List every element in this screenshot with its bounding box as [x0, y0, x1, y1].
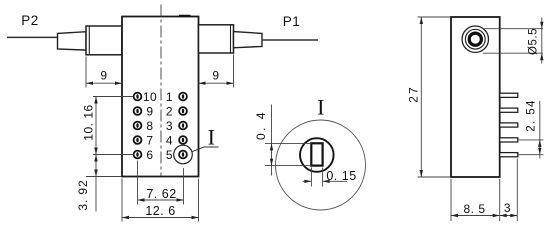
svg-text:2: 2 — [166, 104, 173, 118]
side view body — [451, 17, 500, 177]
svg-text:2. 54: 2. 54 — [526, 99, 538, 132]
side pin 4 — [500, 138, 518, 142]
svg-text:4: 4 — [166, 133, 173, 147]
detail view I big circle — [276, 120, 366, 210]
pin 3 — [166, 119, 187, 133]
dimension 0.4 — [254, 105, 311, 176]
svg-text:Ø5.5: Ø5.5 — [528, 28, 540, 55]
pin 8 — [134, 119, 154, 133]
svg-text:1: 1 — [166, 90, 173, 104]
pin 2 — [166, 104, 187, 118]
dimension 0.15 — [303, 168, 357, 187]
svg-text:I: I — [317, 95, 325, 120]
detail callout circle on pin 5 — [174, 125, 219, 164]
fiber port inner ring — [469, 33, 481, 45]
dimension phi 5.5 — [483, 18, 544, 64]
pin 6 — [134, 148, 154, 162]
svg-text:3: 3 — [504, 201, 511, 215]
svg-text:9: 9 — [100, 69, 107, 83]
dimension 3.92 — [76, 155, 121, 212]
svg-text:I: I — [208, 125, 216, 150]
ferrule left — [58, 32, 87, 50]
top tab — [179, 15, 191, 17]
dimension 27 — [407, 17, 450, 177]
magnified slot — [311, 143, 322, 165]
svg-text:0. 15: 0. 15 — [326, 169, 356, 183]
dimension 8.5 — [451, 179, 517, 221]
ferrule right — [234, 32, 263, 48]
side pin 1 — [500, 93, 518, 97]
side pin 3 — [500, 123, 518, 127]
svg-text:10. 16: 10. 16 — [82, 104, 96, 140]
dimension 3 — [500, 159, 518, 222]
svg-text:7: 7 — [146, 133, 153, 147]
svg-text:3: 3 — [166, 119, 173, 133]
pin 5 — [166, 148, 187, 162]
side pin 2 — [500, 108, 518, 112]
svg-text:7. 62: 7. 62 — [146, 187, 176, 201]
pin 7 — [134, 133, 154, 147]
fiber port middle circle — [465, 29, 485, 49]
svg-text:10: 10 — [143, 90, 157, 104]
svg-text:8: 8 — [146, 119, 153, 133]
svg-text:P2: P2 — [21, 13, 39, 28]
magnified pin circle — [300, 138, 334, 172]
dimension 7.62 — [138, 161, 184, 205]
fiber P1 wire — [262, 39, 318, 41]
svg-text:27: 27 — [407, 85, 421, 103]
svg-text:8. 5: 8. 5 — [463, 202, 485, 216]
pin 10 — [134, 90, 158, 104]
pin 9 — [134, 104, 154, 118]
switch body front view — [122, 17, 199, 177]
dimension 10.16 — [82, 97, 134, 155]
svg-text:9: 9 — [212, 69, 219, 83]
boot left — [86, 26, 122, 55]
svg-text:5: 5 — [166, 148, 173, 162]
dimension 9 left — [86, 57, 122, 88]
pin 4 — [166, 133, 187, 147]
dimension 2.54 — [518, 99, 544, 158]
svg-text:12. 6: 12. 6 — [145, 204, 175, 218]
fiber port outer circle — [462, 26, 488, 52]
side pin 5 — [500, 153, 518, 157]
svg-text:3. 92: 3. 92 — [76, 179, 90, 210]
dimension 12.6 — [122, 179, 199, 222]
pin 1 — [166, 90, 187, 104]
dimension 9 right — [199, 55, 234, 88]
svg-text:9: 9 — [146, 104, 153, 118]
centerline — [160, 5, 162, 177]
svg-text:P1: P1 — [283, 14, 301, 29]
svg-text:0. 4: 0. 4 — [254, 110, 268, 140]
fiber P2 wire — [7, 36, 58, 38]
svg-text:6: 6 — [146, 148, 153, 162]
boot right — [199, 25, 234, 53]
